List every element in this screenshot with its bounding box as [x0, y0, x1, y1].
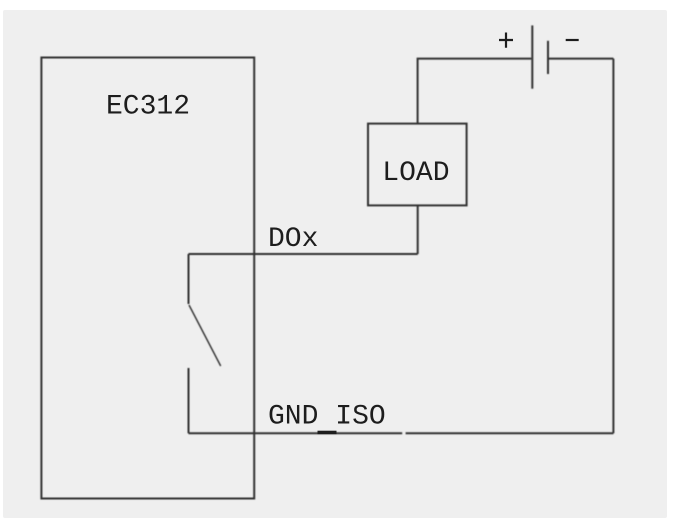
IC block EC312 — [41, 58, 254, 499]
svg-text:GND: GND — [268, 402, 318, 433]
battery BT1 positive plate — [531, 25, 533, 88]
switch S1 top terminal — [188, 254, 190, 304]
wire: load bottom to DOx — [417, 205, 419, 254]
battery minus mark — [566, 39, 579, 41]
wire: DOx net — [189, 253, 418, 255]
switch S1 bottom terminal — [188, 368, 190, 433]
battery plus mark — [499, 33, 513, 48]
svg-text:DOx: DOx — [268, 224, 318, 255]
wire: right rail down to GND_ISO — [612, 59, 614, 434]
wire: load top to battery positive — [418, 59, 532, 124]
load box LOAD — [368, 124, 467, 206]
wire: GND_ISO net left segment — [189, 432, 403, 434]
svg-text:ISO: ISO — [335, 402, 385, 433]
wire: battery negative to right rail — [549, 58, 613, 60]
wire: GND_ISO net right segment — [406, 432, 614, 434]
svg-text:LOAD: LOAD — [382, 158, 449, 189]
battery BT1 negative plate — [547, 41, 549, 74]
svg-text:EC312: EC312 — [106, 92, 190, 123]
switch S1 blade — [189, 305, 221, 366]
label GND_ISO underscore — [318, 431, 337, 434]
